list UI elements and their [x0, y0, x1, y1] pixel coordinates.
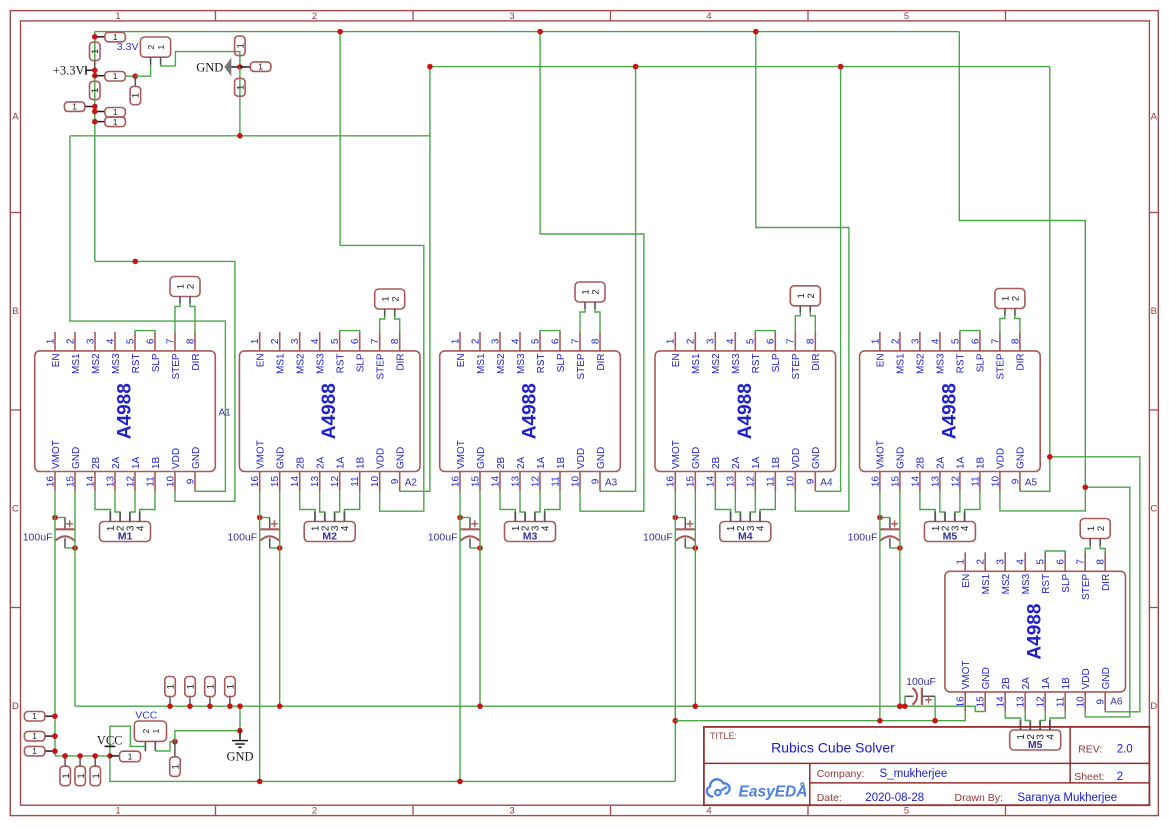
svg-text:4: 4 — [756, 525, 767, 531]
svg-text:1: 1 — [250, 338, 261, 344]
1-pin connector P3 — [95, 71, 126, 81]
junction dot 3.3V A6 branch — [1083, 484, 1089, 490]
svg-text:1A: 1A — [1041, 677, 1052, 690]
svg-text:EN: EN — [671, 353, 682, 367]
wire A3 VMOT pin16 drop — [459, 491, 461, 781]
svg-text:9: 9 — [1010, 478, 1021, 484]
svg-text:EasyEDA: EasyEDA — [739, 784, 808, 801]
wire M3 pin1 to 2B — [500, 491, 515, 511]
svg-text:2: 2 — [146, 44, 156, 49]
svg-text:2A: 2A — [516, 456, 527, 469]
RST-SLP jumper wire A5 — [960, 331, 980, 333]
svg-text:12: 12 — [746, 476, 757, 488]
svg-text:1B: 1B — [356, 456, 367, 469]
svg-text:10: 10 — [1076, 696, 1087, 708]
svg-text:GND: GND — [191, 447, 202, 469]
svg-text:2: 2 — [141, 729, 151, 734]
svg-text:2: 2 — [312, 11, 317, 22]
svg-text:1A: 1A — [131, 456, 142, 469]
wire GND drop to A3 GND pin9 — [600, 67, 636, 492]
power flag +3.3V — [53, 64, 95, 78]
1-pin connector P18 — [110, 751, 141, 762]
junction dot +3.3V a — [92, 68, 98, 74]
svg-text:2: 2 — [806, 293, 817, 298]
junction dot P20 — [167, 703, 173, 709]
svg-text:1: 1 — [115, 11, 120, 22]
svg-text:4: 4 — [706, 11, 711, 22]
svg-text:10: 10 — [786, 476, 797, 488]
svg-text:7: 7 — [165, 338, 176, 344]
svg-text:+3.3V: +3.3V — [53, 64, 85, 78]
wire A6 M5 pin1 to 2B — [1005, 712, 1020, 720]
svg-text:VDD: VDD — [1081, 668, 1092, 689]
svg-text:4: 4 — [310, 338, 321, 344]
wire M5 pin2 to 2A — [940, 491, 945, 512]
svg-text:MS2: MS2 — [916, 353, 927, 374]
svg-text:1: 1 — [870, 338, 881, 344]
1-pin connector P23 (vertical above GND bus) — [225, 677, 237, 707]
svg-text:1: 1 — [956, 559, 967, 565]
wire M2 pin2 to 2A — [320, 491, 325, 512]
svg-text:9: 9 — [590, 478, 601, 484]
svg-text:VMOT: VMOT — [51, 440, 62, 469]
svg-text:A4988: A4988 — [319, 383, 340, 439]
svg-text:VMOT: VMOT — [961, 661, 972, 690]
svg-text:MS2: MS2 — [1001, 573, 1012, 594]
svg-text:8: 8 — [1010, 338, 1021, 344]
wire M3 pin2 to 2A — [520, 491, 525, 512]
wire A4 VMOT pin16 drop — [674, 491, 676, 781]
4-pin motor connector M5 — [924, 512, 975, 543]
wire 3.3V to A6 VDD — [1085, 487, 1130, 717]
svg-text:MS1: MS1 — [981, 573, 992, 594]
wire 3.3V to A5 VDD — [959, 32, 1085, 511]
svg-text:2A: 2A — [316, 456, 327, 469]
svg-text:VCC: VCC — [135, 709, 158, 721]
A4988 stepper driver module A3 — [440, 332, 621, 491]
4-pin motor connector M2 — [304, 512, 355, 543]
2-pin header connector above A4 (STEP/DIR) — [790, 286, 820, 313]
svg-text:2: 2 — [1011, 296, 1022, 301]
wire M4 pin4 to 1B — [760, 491, 775, 511]
svg-text:14: 14 — [85, 476, 96, 488]
svg-text:12: 12 — [950, 476, 961, 488]
svg-text:1: 1 — [32, 731, 37, 741]
svg-text:Company:: Company: — [817, 768, 865, 780]
wire GND stem from bus — [239, 706, 241, 731]
net label 3.3V — [117, 41, 139, 53]
svg-text:DIR: DIR — [396, 353, 407, 370]
svg-text:3.3V: 3.3V — [117, 41, 139, 53]
A4988 stepper driver module A4 — [655, 332, 836, 491]
junction dot GND top cluster — [237, 64, 243, 70]
2-pin header JVCC (VCC supply) — [134, 721, 166, 751]
svg-text:1: 1 — [113, 107, 118, 117]
4-pin motor connector M1 — [100, 512, 151, 543]
svg-text:3: 3 — [910, 338, 921, 344]
junction dot C-A4 cap VMOT — [673, 515, 679, 521]
wire M4 pin3 to 1A — [750, 491, 755, 512]
svg-text:8: 8 — [390, 338, 401, 344]
svg-text:2: 2 — [470, 338, 481, 344]
wire M3 pin3 to 1A — [535, 491, 540, 512]
junction dot P13 — [52, 733, 58, 739]
svg-text:2: 2 — [890, 338, 901, 344]
RST-SLP jumper wire A4 — [755, 331, 775, 333]
junction dot C-A2 cap VMOT — [257, 515, 263, 521]
junction dot GND bus A4 tap — [838, 64, 844, 70]
wire P3 to node 3.3V supply — [125, 75, 135, 77]
capacitor C-A6 100uF (horizontal) — [905, 676, 936, 721]
svg-text:MS3: MS3 — [936, 353, 947, 374]
wire VMOT upper run to A6 — [675, 712, 965, 721]
wire M5 pin1 to 2B — [920, 491, 935, 511]
wire A4 header pin1 to STEP — [795, 313, 800, 333]
svg-text:7: 7 — [990, 338, 1001, 344]
svg-text:16: 16 — [45, 476, 56, 488]
junction dot VCC node — [107, 753, 113, 759]
svg-text:S_mukherjee: S_mukherjee — [880, 768, 948, 780]
svg-text:SLP: SLP — [556, 353, 567, 372]
wire A6 M5 pin4 to 1B — [1050, 712, 1065, 720]
svg-text:4: 4 — [540, 525, 551, 531]
wire VCC header pin1 to GND — [155, 742, 175, 751]
wire A2 header pin2 to DIR — [395, 316, 400, 333]
wire M5 pin3 to 1A — [955, 491, 960, 512]
svg-text:1: 1 — [156, 44, 166, 49]
svg-text:2B: 2B — [1001, 677, 1012, 690]
wire A5 header pin1 to STEP — [1000, 316, 1005, 333]
svg-text:12: 12 — [330, 476, 341, 488]
svg-text:A4988: A4988 — [115, 383, 136, 439]
svg-text:16: 16 — [870, 476, 881, 488]
svg-text:A4: A4 — [820, 478, 833, 489]
2-pin header connector above A3 (STEP/DIR) — [575, 282, 605, 309]
wire A3 header pin1 to STEP — [580, 309, 585, 333]
wire A1 header pin1 to STEP — [175, 304, 180, 333]
svg-text:7: 7 — [786, 338, 797, 344]
4-pin motor connector M4 — [720, 512, 771, 543]
svg-text:MS3: MS3 — [111, 353, 122, 374]
svg-text:13: 13 — [726, 476, 737, 488]
wire GND riser to A2 GND pin9 — [400, 67, 430, 492]
svg-text:GND: GND — [596, 447, 607, 469]
svg-text:MS1: MS1 — [71, 353, 82, 374]
1-pin connector P13 — [24, 731, 55, 741]
svg-text:7: 7 — [1076, 559, 1087, 565]
svg-text:M3: M3 — [523, 531, 538, 543]
svg-text:VDD: VDD — [576, 448, 587, 469]
svg-text:DIR: DIR — [1101, 574, 1112, 591]
1-pin connector P5 (vertical above GND node) — [235, 36, 247, 56]
svg-text:MS2: MS2 — [91, 353, 102, 374]
svg-text:4: 4 — [930, 338, 941, 344]
1-pin connector P10 — [95, 107, 126, 117]
svg-text:M5: M5 — [943, 531, 958, 543]
junction dot P23 — [227, 703, 233, 709]
svg-text:16: 16 — [250, 476, 261, 488]
svg-text:2: 2 — [686, 338, 697, 344]
svg-text:B: B — [1151, 306, 1157, 317]
svg-text:1B: 1B — [771, 456, 782, 469]
junction dot ground symbol node — [237, 728, 243, 734]
svg-text:M2: M2 — [322, 531, 337, 543]
1-pin connector P15 (vertical) — [60, 756, 72, 786]
svg-text:A4988: A4988 — [735, 383, 756, 439]
junction dot C-A1 cap GND — [72, 545, 78, 551]
svg-text:6: 6 — [766, 338, 777, 344]
junction dot cluster d — [92, 109, 98, 115]
svg-text:4: 4 — [1016, 559, 1027, 565]
svg-text:2A: 2A — [936, 456, 947, 469]
svg-text:TITLE:: TITLE: — [710, 731, 737, 741]
svg-text:GND: GND — [276, 447, 287, 469]
svg-text:5: 5 — [530, 338, 541, 344]
wire A6 M5 pin3 to 1A — [1040, 712, 1045, 721]
svg-text:Rubics Cube Solver: Rubics Cube Solver — [771, 739, 895, 755]
svg-text:STEP: STEP — [171, 353, 182, 379]
wire GND link to bottom ground — [175, 731, 240, 742]
svg-text:100uF: 100uF — [643, 532, 673, 544]
svg-text:15: 15 — [976, 696, 987, 708]
svg-text:MS1: MS1 — [896, 353, 907, 374]
svg-text:MS3: MS3 — [516, 353, 527, 374]
svg-text:1: 1 — [32, 746, 37, 756]
svg-text:13: 13 — [510, 476, 521, 488]
2-pin header connector above A5 (STEP/DIR) — [995, 289, 1025, 316]
svg-text:1: 1 — [113, 71, 118, 81]
junction dot GND A6 branch — [1047, 454, 1053, 460]
1-pin connector P1 top — [95, 32, 126, 42]
svg-text:10: 10 — [990, 476, 1001, 488]
svg-text:11: 11 — [550, 476, 561, 487]
svg-text:1: 1 — [113, 117, 118, 127]
svg-text:6: 6 — [145, 338, 156, 344]
svg-text:EN: EN — [456, 353, 467, 367]
svg-text:A2: A2 — [405, 478, 418, 489]
svg-text:14: 14 — [706, 476, 717, 488]
1-pin connector P8 (vertical inline) — [90, 81, 102, 99]
svg-text:1: 1 — [115, 806, 120, 817]
svg-text:8: 8 — [185, 338, 196, 344]
junction dot 3.3V bus A2 tap — [337, 29, 343, 35]
svg-text:2B: 2B — [296, 456, 307, 469]
wire M2 pin4 to 1B — [344, 491, 359, 511]
wire M4 pin1 to 2B — [715, 491, 730, 511]
svg-text:A: A — [1151, 112, 1158, 123]
svg-text:4: 4 — [1046, 734, 1057, 740]
svg-text:11: 11 — [1056, 696, 1067, 707]
svg-text:13: 13 — [1016, 696, 1027, 708]
wire A5 VMOT pin16 drop — [879, 491, 881, 721]
svg-text:2A: 2A — [111, 456, 122, 469]
wire GND branch to A6 GND pin9 — [1050, 457, 1140, 712]
wire A2 GND pin15 drop — [279, 491, 281, 706]
svg-text:SLP: SLP — [771, 353, 782, 372]
A4988 stepper driver module A6 — [945, 552, 1126, 711]
EasyEDA logo — [707, 779, 808, 800]
ground symbol bottom — [226, 731, 253, 764]
svg-text:Date:: Date: — [817, 792, 842, 804]
wire VMOT bottom-left run — [55, 755, 110, 757]
svg-text:MS2: MS2 — [296, 353, 307, 374]
svg-text:1B: 1B — [151, 456, 162, 469]
wire A6 M5 pin2 to 2A — [1025, 712, 1030, 721]
svg-text:GND: GND — [811, 447, 822, 469]
svg-text:9: 9 — [390, 478, 401, 484]
svg-text:VDD: VDD — [996, 448, 1007, 469]
junction dot GND bus left corner — [427, 64, 433, 70]
node +3.3V cluster vertical — [94, 32, 96, 43]
svg-text:GND: GND — [981, 667, 992, 689]
1-pin connector P11 — [95, 117, 126, 127]
junction dot P1 — [92, 34, 98, 40]
1-pin connector P12 — [24, 711, 55, 721]
svg-text:1B: 1B — [976, 456, 987, 469]
svg-text:5: 5 — [904, 11, 909, 22]
wire GND bus y136 — [70, 135, 430, 137]
junction dot C-A5 cap VMOT — [877, 515, 883, 521]
junction dot P12 — [52, 713, 58, 719]
junction dot +3.3V b — [92, 73, 98, 79]
2-pin header connector above A2 (STEP/DIR) — [375, 289, 405, 316]
svg-text:RST: RST — [536, 353, 547, 373]
svg-text:M4: M4 — [738, 531, 753, 543]
junction dot GND bus A3 tap — [633, 64, 639, 70]
svg-text:13: 13 — [105, 476, 116, 488]
svg-text:3: 3 — [509, 11, 514, 22]
svg-text:2: 2 — [976, 559, 987, 565]
svg-text:A4988: A4988 — [520, 383, 541, 439]
wire M2 pin3 to 1A — [335, 491, 340, 512]
capacitor C-A5 100uF — [848, 518, 900, 549]
svg-text:2: 2 — [1096, 526, 1107, 531]
A4988 stepper driver module A2 — [239, 332, 420, 491]
svg-text:10: 10 — [165, 476, 176, 488]
svg-text:8: 8 — [1096, 559, 1107, 565]
svg-text:1: 1 — [258, 62, 263, 72]
1-pin connector P6 (right of GND node) — [240, 62, 271, 72]
svg-text:EN: EN — [961, 574, 972, 588]
wire M1 pin3 to 1A — [130, 491, 135, 512]
capacitor C-A4 100uF — [643, 518, 695, 549]
svg-text:2.0: 2.0 — [1117, 743, 1133, 755]
svg-text:D: D — [12, 701, 19, 712]
svg-text:8: 8 — [806, 338, 817, 344]
wire VMOT bottom bus — [110, 756, 676, 782]
svg-text:14: 14 — [490, 476, 501, 488]
svg-text:A6: A6 — [1110, 696, 1123, 707]
svg-text:C: C — [1150, 504, 1157, 515]
svg-text:1A: 1A — [956, 456, 967, 469]
svg-text:1: 1 — [76, 773, 87, 778]
svg-text:1: 1 — [235, 43, 246, 48]
svg-text:B: B — [12, 306, 18, 317]
1-pin connector P17 (vertical) — [90, 756, 102, 786]
RST-SLP jumper wire A3 — [540, 331, 560, 333]
wire A1 VMOT pin16 drop — [54, 491, 56, 756]
A4988 stepper driver module A5 — [860, 332, 1041, 491]
svg-text:8: 8 — [590, 338, 601, 344]
svg-text:7: 7 — [370, 338, 381, 344]
junction dot GND bus A3 pin15 — [477, 703, 483, 709]
svg-text:1: 1 — [171, 764, 182, 769]
junction dot VMOT bus A2 pin16 — [257, 779, 263, 785]
svg-text:1: 1 — [90, 49, 101, 54]
svg-text:4: 4 — [960, 525, 971, 531]
svg-text:M5: M5 — [1028, 739, 1043, 751]
svg-text:EN: EN — [51, 353, 62, 367]
wire A1 header pin2 to DIR — [190, 304, 195, 333]
wire GND snake to A1 GND pin9 — [70, 136, 226, 492]
junction dot 3.3V bus A3 tap — [537, 29, 543, 35]
svg-text:14: 14 — [996, 696, 1007, 708]
svg-text:D: D — [1150, 701, 1157, 712]
junction dot C-A3 cap GND — [477, 545, 483, 551]
wire A5 header pin2 to DIR — [1015, 316, 1020, 333]
wire A6 header pin1 to STEP — [1085, 546, 1090, 554]
svg-text:EN: EN — [876, 353, 887, 367]
junction dot GND bus A5 pin15 — [897, 703, 903, 709]
svg-text:MS2: MS2 — [496, 353, 507, 374]
title block — [704, 727, 1150, 805]
wire 3.3V header pin1 to GND node — [161, 52, 240, 67]
1-pin connector P21 (vertical above GND bus) — [185, 677, 197, 707]
svg-text:1: 1 — [166, 684, 177, 689]
svg-text:15: 15 — [890, 476, 901, 488]
svg-text:4: 4 — [706, 806, 711, 817]
svg-text:VMOT: VMOT — [876, 440, 887, 469]
svg-text:DIR: DIR — [596, 353, 607, 370]
wire M1 pin2 to 2A — [115, 491, 120, 512]
1-pin connector P14 — [24, 746, 55, 756]
junction dot 3.3V bus A4 tap — [753, 29, 759, 35]
svg-text:VMOT: VMOT — [671, 440, 682, 469]
junction dot 3.3V mid segment — [133, 259, 139, 265]
svg-text:1: 1 — [90, 88, 101, 93]
junction dot GND bus A5 pin15 — [897, 703, 903, 709]
svg-text:A: A — [12, 112, 19, 123]
svg-text:GND: GND — [691, 447, 702, 469]
capacitor C-A1 100uF — [23, 518, 75, 549]
junction dot VMOT bus A3 pin16 — [457, 779, 463, 785]
svg-text:1: 1 — [45, 338, 56, 344]
wire GND node down to bus — [239, 67, 241, 136]
svg-text:3: 3 — [706, 338, 717, 344]
svg-text:6: 6 — [550, 338, 561, 344]
svg-text:GND: GND — [196, 60, 223, 74]
svg-text:2B: 2B — [916, 456, 927, 469]
svg-text:1: 1 — [666, 338, 677, 344]
svg-text:11: 11 — [145, 476, 156, 487]
svg-text:GND: GND — [396, 447, 407, 469]
svg-text:12: 12 — [1036, 696, 1047, 708]
svg-text:5: 5 — [125, 338, 136, 344]
junction dot GND bus A4 pin15 — [693, 703, 699, 709]
svg-text:1: 1 — [91, 773, 102, 778]
4-pin motor connector M5 — [1010, 720, 1061, 751]
svg-text:5: 5 — [1036, 559, 1047, 565]
svg-text:3: 3 — [85, 338, 96, 344]
svg-text:5: 5 — [746, 338, 757, 344]
svg-text:RST: RST — [336, 353, 347, 373]
svg-text:6: 6 — [970, 338, 981, 344]
junction dot C-A4 cap GND — [693, 545, 699, 551]
wire P2 to +3.3V node — [94, 61, 96, 71]
svg-text:1A: 1A — [536, 456, 547, 469]
svg-text:1: 1 — [450, 338, 461, 344]
svg-text:12: 12 — [125, 476, 136, 488]
